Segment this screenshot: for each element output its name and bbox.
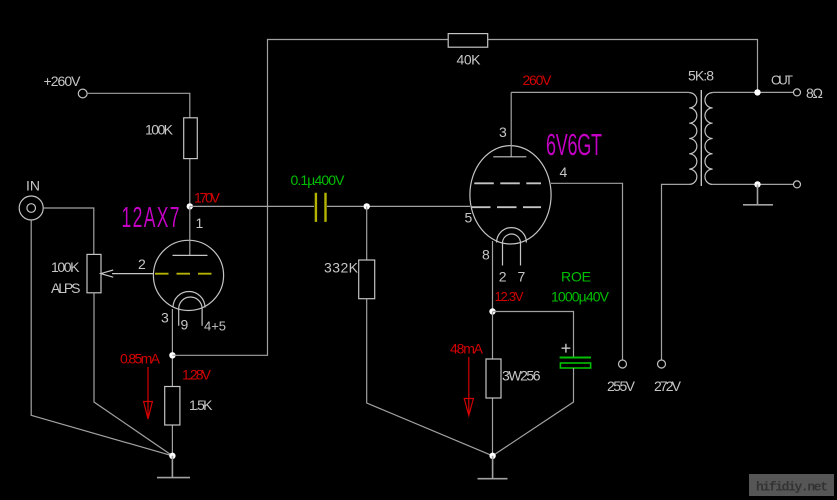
wire jack to pot top <box>43 208 94 254</box>
resistor R 40K feedback <box>448 34 488 48</box>
svg-text:332K: 332K <box>324 259 359 275</box>
svg-text:12.3V: 12.3V <box>495 289 524 304</box>
plate bar 6V6GT <box>493 156 526 158</box>
wire 100K bottom to 170V node <box>189 159 191 207</box>
svg-text:8: 8 <box>482 247 490 263</box>
svg-text:1: 1 <box>196 215 204 231</box>
resistor R 332K <box>359 260 375 299</box>
svg-text:8Ω: 8Ω <box>806 85 823 101</box>
label + polarity <box>562 344 571 353</box>
svg-text:OUT: OUT <box>771 72 793 87</box>
wire cap bottom diagonal to right ground junction <box>493 368 574 456</box>
node OUT junction top <box>754 89 760 95</box>
node +260V terminal <box>78 89 87 98</box>
svg-text:2: 2 <box>138 256 146 272</box>
wire cathode pin 8 down to junction <box>492 241 494 312</box>
node right ground junction <box>489 453 495 459</box>
svg-text:ROE: ROE <box>561 268 591 284</box>
heater arc 12AX7 with legs 9 and 4+5 <box>179 297 202 326</box>
svg-text:3: 3 <box>161 309 169 325</box>
resistor R 3W256 cathode <box>486 359 501 398</box>
node 170V junction <box>187 203 193 209</box>
svg-text:260V: 260V <box>523 72 553 88</box>
node ground junction left <box>169 453 175 459</box>
svg-text:1.5K: 1.5K <box>189 397 213 413</box>
wire cathode junction to 3W256 resistor and ground <box>492 312 494 456</box>
ground symbol right <box>478 456 508 479</box>
svg-text:6V6GT: 6V6GT <box>546 128 602 162</box>
node lower right terminal <box>794 181 801 188</box>
watermark hifidiy.net <box>749 474 834 496</box>
heater arc 6V6GT with legs 2 and 7 <box>503 234 521 266</box>
svg-text:48mA: 48mA <box>450 340 484 356</box>
cathode arc 12AX7 <box>173 292 205 308</box>
grid dashed line 12AX7 (yellow) <box>155 273 217 275</box>
wire signal from 170V node to coupling cap <box>190 205 314 207</box>
svg-text:40K: 40K <box>457 52 482 68</box>
cathode arc 6V6GT <box>497 228 527 243</box>
svg-text:IN: IN <box>26 178 40 194</box>
svg-text:100K: 100K <box>145 121 174 137</box>
wire cap to 6V6 grid pin 5 <box>327 205 470 207</box>
wire pin 1 from 170V node to plate <box>189 206 191 255</box>
ground symbol transformer <box>743 184 773 204</box>
wire cathode pin 3 down to 1.5K and bottom junction <box>171 309 173 456</box>
node OUT terminal <box>794 89 801 96</box>
capacitor C bypass electrolytic top plate (green) <box>560 357 591 359</box>
tube 6V6GT envelope <box>470 146 551 244</box>
input jack inner pin <box>27 204 36 213</box>
screen grid dashed line <box>474 182 541 184</box>
svg-text:1.28V: 1.28V <box>182 366 212 382</box>
wire 260V rail to transformer primary <box>511 91 689 93</box>
svg-text:hifidiy.net: hifidiy.net <box>756 480 828 495</box>
svg-text:100K: 100K <box>51 259 80 275</box>
svg-text:12AX7: 12AX7 <box>122 202 180 233</box>
wire pot bottom down and diagonal to ground junction <box>94 293 172 456</box>
svg-text:5: 5 <box>465 210 473 226</box>
svg-text:4: 4 <box>560 164 568 180</box>
svg-text:3W256: 3W256 <box>502 367 541 383</box>
wire 332K bottom diagonal to right ground junction <box>367 299 493 456</box>
wire feedback from cathode junction up over the top <box>172 40 757 356</box>
svg-text:ALPS: ALPS <box>51 280 81 296</box>
transformer T secondary winding <box>705 93 713 185</box>
svg-text:272V: 272V <box>654 378 682 394</box>
ground symbol left <box>157 456 190 478</box>
wire jack ground down and diagonal to ground junction <box>31 220 172 456</box>
current arrow 48mA <box>464 357 473 416</box>
svg-text:170V: 170V <box>194 190 221 206</box>
wire plate pin 3 to 260V rail <box>510 92 512 156</box>
node secondary bottom junction <box>754 181 760 187</box>
wire primary bottom to 272V terminal <box>662 184 690 360</box>
svg-text:0.1µ400V: 0.1µ400V <box>291 172 346 188</box>
svg-text:5K:8: 5K:8 <box>688 68 714 84</box>
current arrow 0.85mA <box>144 367 153 419</box>
wire junction down to 332K <box>366 206 368 260</box>
transformer T primary winding <box>689 93 697 185</box>
wire cathode junction right to bypass cap <box>493 312 574 358</box>
resistor R 1.5K <box>165 387 180 426</box>
transformer core lines <box>700 90 702 186</box>
capacitor C bypass electrolytic bottom plate (green box) <box>560 363 590 368</box>
node grid junction <box>364 203 370 209</box>
node 272V terminal <box>658 360 666 368</box>
wire from +260V terminal to 100K top <box>87 93 190 118</box>
node cathode junction <box>169 352 175 358</box>
resistor R 100K plate load <box>184 118 198 159</box>
svg-text:7: 7 <box>518 268 526 284</box>
svg-text:3: 3 <box>499 124 507 140</box>
control grid dashed line <box>471 206 541 208</box>
svg-text:4+5: 4+5 <box>204 319 226 334</box>
svg-text:0.85mA: 0.85mA <box>120 350 161 366</box>
plate bar 12AX7 <box>173 254 208 256</box>
svg-text:1000µ40V: 1000µ40V <box>551 288 610 304</box>
wire secondary bottom to lower terminal <box>713 183 794 185</box>
svg-text:2: 2 <box>499 268 507 284</box>
node 255V terminal <box>619 360 627 368</box>
input jack outer circle <box>19 196 43 220</box>
svg-text:255V: 255V <box>607 378 636 394</box>
wire secondary top to OUT terminal <box>713 91 794 93</box>
svg-text:9: 9 <box>181 317 189 333</box>
wire screen pin 4 to 255V terminal <box>551 183 623 360</box>
capacitor C 0.1u400V plates (yellow) <box>316 193 326 222</box>
tube 12AX7 envelope <box>153 240 223 310</box>
node 6V6 cathode junction <box>489 308 495 314</box>
svg-text:+260V: +260V <box>44 73 82 89</box>
potentiometer 100K ALPS body <box>87 254 101 292</box>
pot wiper arrow <box>101 270 154 277</box>
